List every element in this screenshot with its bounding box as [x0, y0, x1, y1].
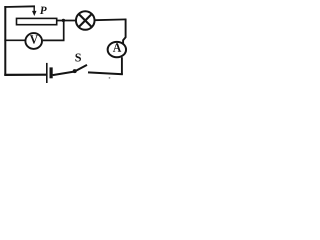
- switch pivot dot: [73, 69, 77, 73]
- wire battery to switch: [53, 72, 74, 76]
- ammeter letter A: [113, 43, 121, 51]
- label S: [75, 53, 81, 61]
- rheostat wiper arrowhead: [32, 11, 37, 16]
- battery short plate negative: [49, 67, 52, 78]
- rheostat wiper arrow shaft: [33, 6, 35, 12]
- lamp cross stroke 1: [79, 14, 92, 26]
- voltmeter letter V: [30, 35, 38, 43]
- ammeter A circle: [108, 42, 126, 57]
- battery long plate positive: [46, 63, 48, 83]
- wire ammeter bottom lead: [121, 57, 123, 75]
- junction dot node: [62, 19, 65, 22]
- wire rheostat to lamp: [57, 20, 75, 22]
- wire voltmeter left lead: [4, 39, 24, 41]
- wire voltmeter right lead: [43, 39, 65, 41]
- wire top horizontal: [4, 5, 35, 8]
- wire lamp to right corner: [95, 18, 126, 21]
- voltmeter V circle: [25, 33, 42, 49]
- wire bottom right segment: [88, 72, 123, 74]
- wire right vertical down to ammeter: [123, 19, 126, 45]
- wire left vertical: [4, 6, 6, 76]
- speck artifact: [109, 77, 111, 79]
- label P: [40, 7, 47, 14]
- lamp cross stroke 2: [79, 14, 92, 26]
- resistor box P: [17, 18, 57, 24]
- switch S lever: [74, 65, 87, 72]
- wire bottom left segment: [4, 74, 46, 76]
- lamp circle: [76, 11, 95, 30]
- wire junction down to voltmeter: [63, 20, 65, 40]
